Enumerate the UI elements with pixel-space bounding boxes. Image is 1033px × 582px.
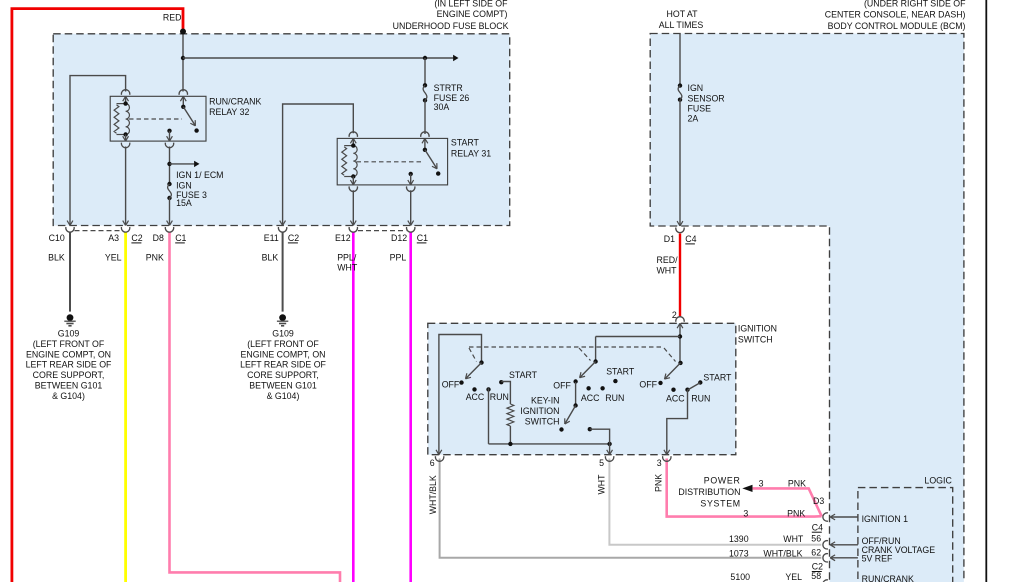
svg-text:ALL TIMES: ALL TIMES [659,20,704,30]
svg-text:E11: E11 [264,233,279,243]
svg-text:D3: D3 [813,496,824,506]
svg-text:YEL: YEL [785,572,802,582]
svg-text:3: 3 [759,478,764,488]
svg-text:C2: C2 [288,233,299,243]
svg-text:(LEFT FRONT OF: (LEFT FRONT OF [247,339,319,349]
svg-text:RUN: RUN [605,393,624,403]
svg-text:RED: RED [163,13,182,23]
svg-text:1390: 1390 [729,534,749,544]
svg-text:LEFT REAR SIDE OF: LEFT REAR SIDE OF [26,360,112,370]
svg-text:OFF: OFF [639,380,657,390]
svg-text:BODY CONTROL MODULE (BCM): BODY CONTROL MODULE (BCM) [828,21,966,31]
svg-text:UNDERHOOD FUSE BLOCK: UNDERHOOD FUSE BLOCK [393,21,509,31]
svg-text:WHT/BLK: WHT/BLK [763,549,802,559]
svg-text:1073: 1073 [729,549,749,559]
svg-text:HOT AT: HOT AT [667,9,699,19]
svg-text:G109: G109 [272,328,294,338]
svg-text:(IN LEFT SIDE OF: (IN LEFT SIDE OF [434,0,508,9]
svg-text:CORE SUPPORT,: CORE SUPPORT, [33,370,105,380]
svg-text:CENTER CONSOLE, NEAR DASH): CENTER CONSOLE, NEAR DASH) [825,10,966,20]
svg-text:D1: D1 [664,234,675,244]
svg-text:BLK: BLK [48,253,65,263]
svg-text:5: 5 [599,458,604,468]
svg-text:ACC: ACC [581,393,600,403]
svg-text:SWITCH: SWITCH [738,335,773,345]
svg-text:RELAY 31: RELAY 31 [451,148,491,158]
svg-text:POWER: POWER [704,475,741,485]
svg-text:E12: E12 [335,233,351,243]
svg-text:WHT: WHT [596,474,606,495]
svg-text:C1: C1 [175,233,186,243]
svg-text:A3: A3 [108,233,119,243]
svg-text:C10: C10 [49,233,65,243]
svg-text:IGNITION: IGNITION [520,406,559,416]
svg-text:WHT: WHT [783,534,804,544]
svg-text:RED/: RED/ [657,255,679,265]
svg-text:START: START [703,372,732,382]
svg-text:YEL: YEL [105,253,122,263]
svg-text:BLK: BLK [262,253,279,263]
svg-text:IGN 1/ ECM: IGN 1/ ECM [176,170,223,180]
svg-text:5100: 5100 [730,572,750,582]
svg-text:D8: D8 [153,233,164,243]
svg-text:LEFT REAR SIDE OF: LEFT REAR SIDE OF [240,360,326,370]
svg-text:WHT: WHT [337,262,358,272]
svg-text:2A: 2A [688,113,699,123]
svg-text:62: 62 [811,548,821,558]
svg-text:SENSOR: SENSOR [688,93,725,103]
svg-text:ENGINE COMPT, ON: ENGINE COMPT, ON [240,349,325,359]
svg-text:3: 3 [743,508,748,518]
svg-text:15A: 15A [176,198,192,208]
svg-text:SYSTEM: SYSTEM [700,498,740,508]
svg-text:RUN: RUN [691,393,710,403]
svg-text:WHT: WHT [657,265,678,275]
svg-text:FUSE: FUSE [688,104,712,114]
svg-text:RELAY 32: RELAY 32 [209,107,249,117]
svg-text:2: 2 [672,310,677,320]
svg-text:56: 56 [811,533,821,543]
svg-text:START: START [451,138,480,148]
svg-text:& G104): & G104) [267,391,300,401]
svg-text:RUN/CRANK: RUN/CRANK [209,97,261,107]
svg-text:RUN/CRANK: RUN/CRANK [862,574,914,582]
svg-text:PNK: PNK [788,478,806,488]
svg-text:IGN: IGN [688,83,704,93]
svg-text:KEY-IN: KEY-IN [531,395,560,405]
svg-text:C2: C2 [131,233,142,243]
svg-text:SWITCH: SWITCH [525,416,560,426]
svg-text:START: START [606,367,635,377]
svg-text:PNK: PNK [146,253,164,263]
svg-text:C4: C4 [812,522,823,532]
svg-text:ACC: ACC [466,392,485,402]
svg-text:RUN: RUN [490,392,509,402]
svg-text:ACC: ACC [666,393,685,403]
svg-text:PNK: PNK [653,474,663,492]
svg-text:STRTR: STRTR [434,83,463,93]
svg-text:6: 6 [430,458,435,468]
svg-text:IGNITION: IGNITION [738,324,777,334]
svg-text:(UNDER RIGHT SIDE OF: (UNDER RIGHT SIDE OF [864,0,966,9]
svg-text:58: 58 [811,571,821,581]
svg-text:DISTRIBUTION: DISTRIBUTION [678,487,740,497]
svg-text:C4: C4 [685,234,696,244]
svg-text:3: 3 [657,458,662,468]
svg-text:PPL: PPL [390,253,407,263]
svg-text:(LEFT FRONT OF: (LEFT FRONT OF [33,339,105,349]
svg-text:WHT/BLK: WHT/BLK [428,475,438,514]
svg-text:CORE SUPPORT,: CORE SUPPORT, [247,370,319,380]
svg-text:C1: C1 [417,233,428,243]
svg-text:30A: 30A [434,102,450,112]
svg-text:5V REF: 5V REF [862,554,893,564]
svg-text:IGN: IGN [176,180,192,190]
svg-text:PNK: PNK [787,508,805,518]
svg-text:G109: G109 [58,328,80,338]
svg-text:OFF: OFF [553,380,571,390]
svg-text:& G104): & G104) [52,391,85,401]
svg-text:BETWEEN G101: BETWEEN G101 [249,381,317,391]
svg-text:LOGIC: LOGIC [924,475,952,485]
svg-text:ENGINE COMPT): ENGINE COMPT) [437,9,508,19]
svg-text:D12: D12 [391,233,407,243]
svg-text:START: START [509,370,538,380]
svg-text:OFF: OFF [442,380,460,390]
svg-text:IGNITION 1: IGNITION 1 [862,514,909,524]
svg-text:PPL/: PPL/ [337,253,357,263]
svg-text:BETWEEN G101: BETWEEN G101 [35,381,103,391]
svg-text:ENGINE COMPT, ON: ENGINE COMPT, ON [26,349,111,359]
